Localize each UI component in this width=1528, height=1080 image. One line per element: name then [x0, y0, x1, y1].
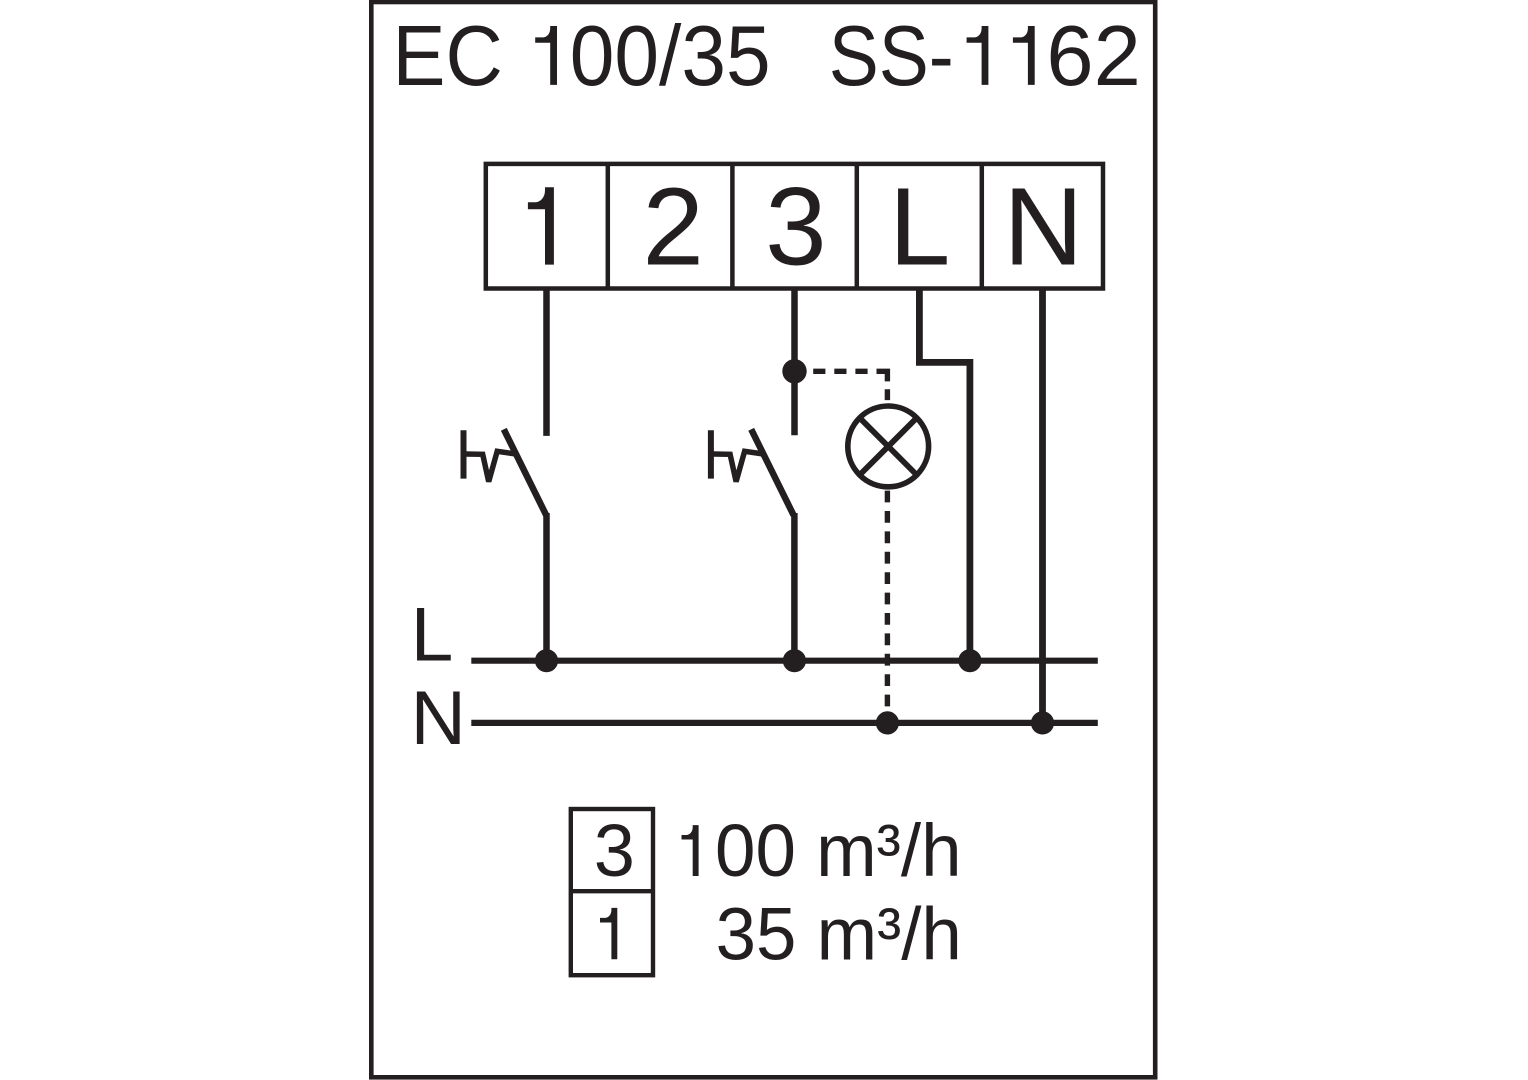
- svg-text:SS-: SS-: [829, 8, 954, 104]
- lamp indicator circle: [848, 406, 929, 487]
- lamp cross stroke NE-SW: [860, 418, 917, 475]
- svg-text:3: 3: [594, 809, 635, 892]
- terminal divider 1|2: [606, 164, 611, 289]
- svg-text:00/35: 00/35: [570, 8, 771, 104]
- svg-text:35 m³/h: 35 m³/h: [716, 893, 962, 976]
- wire switch S2 to L bus: [791, 513, 798, 661]
- svg-text:EC: EC: [393, 8, 503, 103]
- svg-text:62: 62: [1046, 9, 1140, 104]
- title digit 1 first of 1162: [967, 26, 989, 85]
- svg-text:L: L: [889, 166, 950, 289]
- frame border: [371, 2, 1155, 1077]
- node dot L bus at S1: [535, 649, 558, 672]
- node dot N bus at lamp: [876, 711, 899, 734]
- wire terminal L feed with bend: [919, 289, 970, 661]
- svg-text:3: 3: [765, 166, 826, 289]
- terminal 1 label: [528, 187, 554, 264]
- wire terminal 3 down to node: [791, 289, 798, 372]
- N bus line: [471, 720, 1098, 726]
- wire switch S1 to L bus: [543, 513, 550, 661]
- wire node to switch S2 contact: [791, 371, 798, 435]
- svg-text:N: N: [1004, 166, 1084, 289]
- legend value digit 1 of 100: [682, 825, 699, 876]
- node dot L bus at S2: [783, 649, 806, 672]
- node dot L bus at L feed: [958, 649, 981, 672]
- title digit 1 second of 1162: [1013, 26, 1035, 85]
- legend speed 1 digit: [600, 908, 617, 959]
- node dot on wire 3: [782, 359, 806, 383]
- dashed control link node to lamp: [813, 371, 887, 400]
- switch S1 moving arm: [504, 429, 546, 515]
- title digit 1 of 100: [535, 26, 557, 85]
- wire terminal N to N bus: [1039, 289, 1046, 723]
- switch S2 actuator bar: [708, 430, 714, 478]
- terminal divider 2|3: [730, 164, 735, 289]
- switch S1 actuator bar: [461, 430, 467, 478]
- svg-text:2: 2: [643, 166, 704, 289]
- dashed wire lamp to N bus: [885, 491, 890, 723]
- legend speed box divider: [571, 889, 653, 893]
- switch S2 moving arm: [751, 429, 793, 515]
- svg-text:L: L: [411, 592, 454, 677]
- terminal block outline: [486, 164, 1103, 289]
- svg-text:N: N: [411, 676, 466, 761]
- wire terminal 1 down to switch S1 contact: [543, 289, 550, 436]
- switch S1 actuator zigzag link: [465, 451, 516, 481]
- terminal divider L|N: [980, 164, 985, 289]
- L bus line: [471, 658, 1098, 664]
- lamp cross stroke NW-SE: [860, 418, 917, 475]
- node dot N bus at N wire: [1031, 711, 1054, 734]
- terminal divider 3|L: [855, 164, 860, 289]
- switch S2 actuator zigzag link: [712, 451, 763, 481]
- svg-text:00 m³/h: 00 m³/h: [715, 809, 962, 892]
- legend speed box outline: [571, 809, 653, 975]
